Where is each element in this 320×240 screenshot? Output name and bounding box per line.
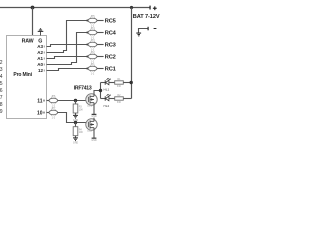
wire HL2 branch left [101,98,106,100]
svg-text:HL1: HL1 [104,87,110,91]
svg-text:RC1: RC1 [105,67,116,73]
wire RC4 to label [97,32,104,34]
svg-text:RC5: RC5 [105,19,116,25]
terminal tick RC2 stub [87,55,88,57]
svg-text:BAT 7-12V: BAT 7-12V [133,14,160,20]
wire LED left rail [100,83,102,99]
wire Q1 source down [93,103,95,114]
svg-text:RC4: RC4 [105,31,117,37]
terminal bar Q2 source [92,138,97,139]
ground R4 [73,138,78,141]
svg-text:4: 4 [0,74,3,80]
wire 12 to RC1 [47,69,88,71]
wire Q2 drain stub [93,118,95,122]
terminal tick RC1 stub [87,67,88,69]
wire RC2 to label [97,56,104,58]
node junction gate Q1 pulldown [74,99,77,102]
ground battery minus [136,33,141,36]
node junction BAT rail HL1 [130,81,133,84]
pin tick A0 [43,64,46,66]
svg-text:JP3: JP3 [90,39,95,42]
wire HL2 to R2 [109,98,115,100]
pin tick A1 [43,58,46,60]
pin tick 10 [44,112,45,114]
ground above G pin [40,32,42,36]
pin tick A2 [43,52,46,54]
svg-text:JP1: JP1 [90,63,95,66]
terminal tick RC4 stub [87,31,88,33]
svg-text:6: 6 [0,88,3,94]
resistor R4 gate pulldown Q2 [73,123,83,138]
svg-text:12: 12 [38,68,44,73]
svg-text:9: 9 [0,109,3,115]
wire R2 to BAT rail [123,98,131,100]
svg-text:JP2: JP2 [90,51,95,54]
connector ellipse RC2 [88,51,97,63]
svg-text:A2: A2 [37,50,43,55]
resistor R2 [115,94,124,104]
connector ellipse RC5 [88,15,97,27]
svg-text:5: 5 [0,81,3,87]
svg-text:10K: 10K [79,108,84,111]
connector ellipse RC3 [88,39,97,51]
label plus [153,8,157,9]
svg-text:330: 330 [117,85,122,88]
svg-text:GND: GND [73,142,79,145]
LED HL2 [104,94,112,108]
wire HL1 branch left [101,82,106,84]
IC U1 Pro Mini body [7,36,47,119]
ground R3 [73,115,78,118]
connector ellipse pin 10 [49,107,58,119]
svg-text:GND: GND [73,119,79,122]
battery positive terminal tick [149,6,150,10]
svg-text:RC3: RC3 [105,43,116,49]
svg-text:330: 330 [117,101,122,104]
svg-text:7: 7 [0,95,3,101]
transistor Q1 MOSFET [86,94,97,108]
wire A2 to RC5 [47,21,88,53]
svg-text:VT1: VT1 [87,105,92,108]
node junction top wire to RAW [31,6,35,10]
pin tick 12 [43,70,46,72]
svg-text:GND: GND [91,115,97,118]
LED HL1 [104,78,112,92]
connector ellipse RC4 [88,27,97,39]
transistor Q2 MOSFET [86,119,97,133]
wire pin10 to Q2 gate [58,113,86,123]
svg-text:JP6: JP6 [51,95,56,98]
wire RC3 to label [97,44,104,46]
wire A1 to RC2 [47,57,88,59]
wire HL1 to R1 [109,82,115,84]
svg-text:VT2: VT2 [87,130,92,133]
node junction BAT rail top [130,6,133,9]
wire A3 to RC3 [47,45,88,47]
svg-text:3: 3 [0,67,3,73]
svg-text:10K: 10K [79,131,84,134]
pin tick A3 [43,46,46,48]
battery negative terminal tick [148,27,149,31]
wire RC1 to label [97,68,104,70]
svg-text:8: 8 [0,102,3,108]
resistor R3 gate pulldown Q1 [73,101,83,116]
wire battery negative to ground [139,29,148,33]
svg-text:10: 10 [37,110,43,116]
terminal tick RC5 stub [87,19,88,21]
svg-text:A3: A3 [37,44,43,49]
connector ellipse RC1 [88,63,97,75]
svg-text:RC2: RC2 [105,55,116,61]
svg-text:Pro Mini: Pro Mini [13,72,32,78]
terminal tick RC3 stub [87,43,88,45]
resistor R1 [115,78,124,88]
wire top horizontal BAT+ to RAW [0,7,150,9]
wire Q2 source down [93,128,95,138]
svg-text:2: 2 [0,60,3,66]
wire pin10 stub [47,112,50,114]
connector ellipse pin 11 [49,95,58,107]
wire BAT+ rail vertical [131,8,133,99]
terminal bar Q1 source [92,114,97,115]
wire pin11 stub [47,100,50,102]
wire R1 to BAT rail [123,82,131,84]
pin tick 11 [44,100,45,102]
svg-text:RAW: RAW [22,38,34,44]
svg-text:11: 11 [37,98,43,104]
wire pin11 to Q1 gate [58,100,86,102]
svg-text:JP5: JP5 [90,15,95,18]
svg-text:JP4: JP4 [90,27,95,30]
svg-text:HL2: HL2 [104,104,110,108]
wire Q1 drain up to LED rail [94,91,101,97]
svg-text:GND: GND [91,139,97,142]
node junction drain to rail [99,89,102,92]
wire A0 to RC4 [47,33,88,65]
node junction gate Q2 pulldown [74,121,77,124]
svg-text:A0: A0 [37,62,43,67]
svg-text:IRF7413: IRF7413 [74,85,92,91]
wire RC5 to label [97,20,104,22]
svg-text:A1: A1 [37,56,43,61]
svg-text:JP7: JP7 [51,107,56,110]
wire RAW drop [32,8,34,36]
label minus [154,28,157,29]
